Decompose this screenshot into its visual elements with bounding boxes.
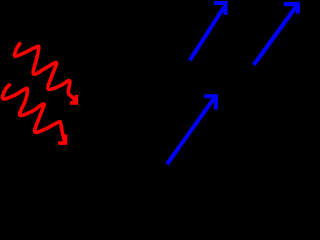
electron arrow 2 arrowhead bbox=[284, 4, 298, 13]
photon wave 2 arrowhead bbox=[58, 134, 65, 143]
electron arrow 3 arrowhead bbox=[204, 96, 216, 109]
electron arrow 1 shaft (blue, left) bbox=[190, 7, 224, 61]
photon wave 2 (red wavy arrow, bottom) bbox=[2, 85, 64, 140]
photon wave 1 (red wavy arrow, top) bbox=[15, 44, 76, 101]
photon wave 1 arrowhead bbox=[70, 95, 77, 103]
electron arrow 2 shaft (blue, right) bbox=[254, 7, 296, 65]
electron arrow 3 shaft (blue, lower middle) bbox=[167, 99, 214, 165]
metal surface (black, invisible on black background) bbox=[60, 120, 300, 216]
electron arrow 1 arrowhead bbox=[214, 3, 226, 15]
